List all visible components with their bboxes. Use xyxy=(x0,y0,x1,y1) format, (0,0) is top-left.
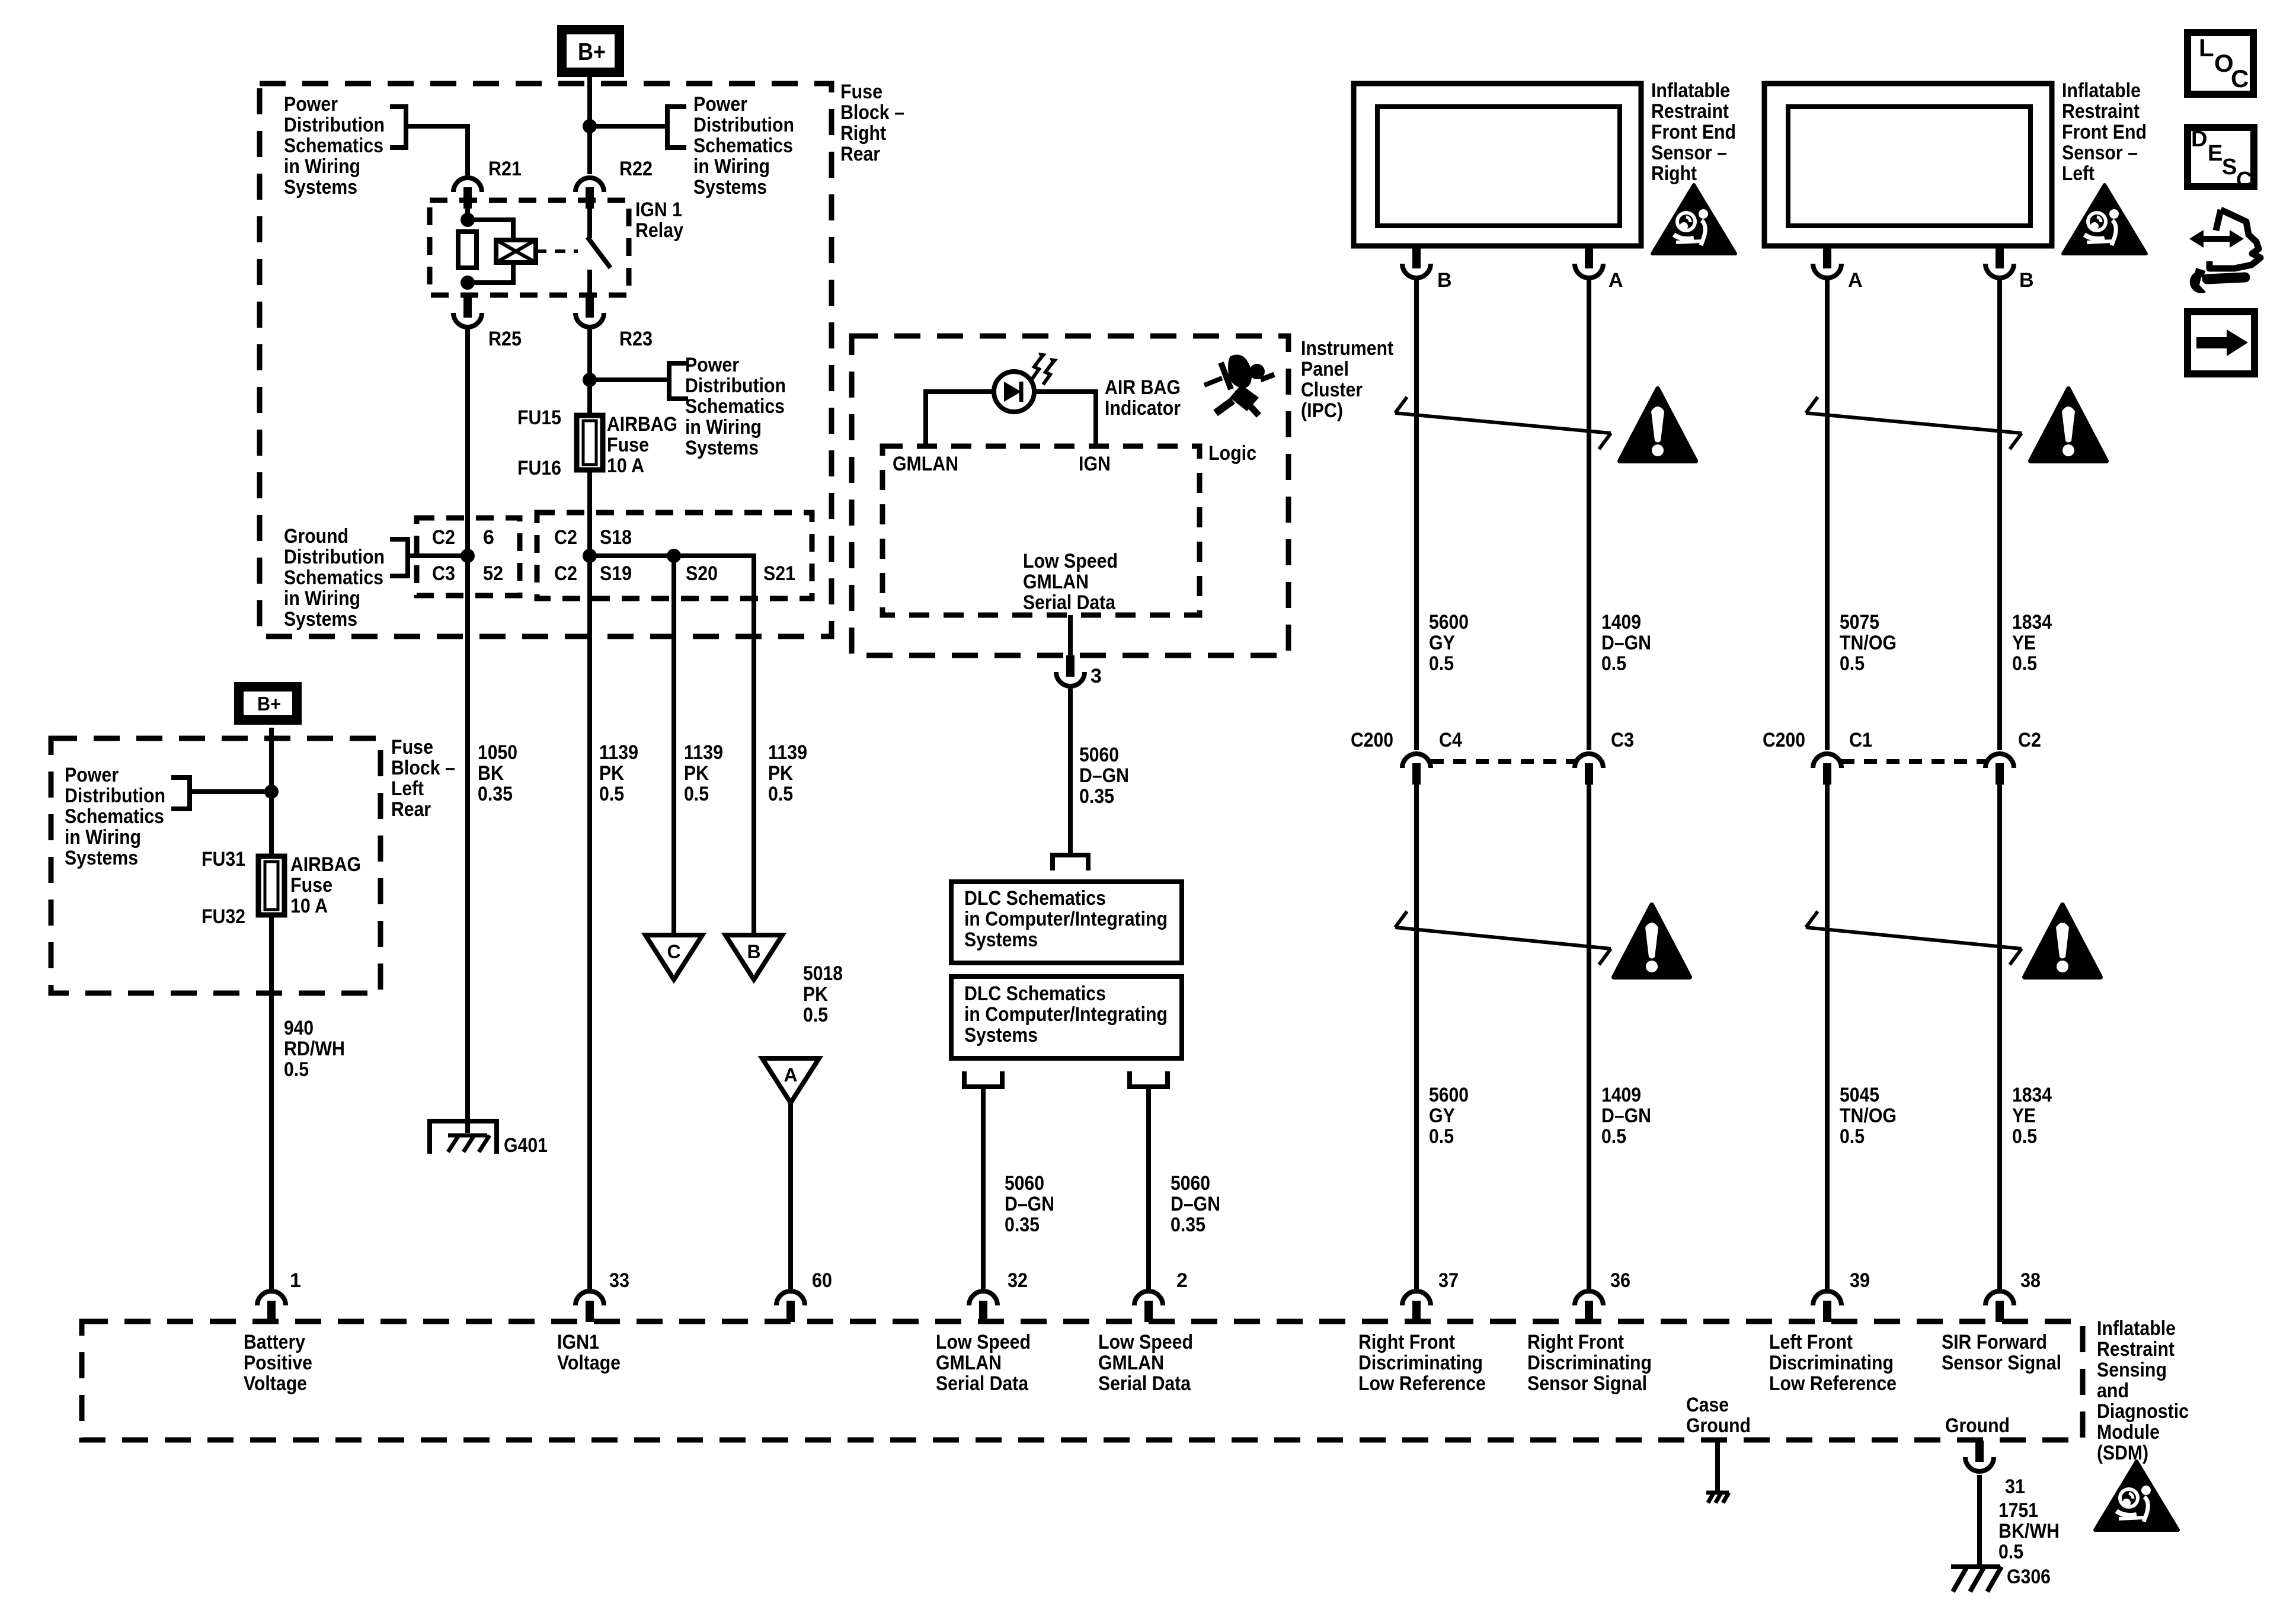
junction B+ lower branch xyxy=(264,785,279,799)
airbag caution icon sensor left xyxy=(2063,185,2146,254)
sensor right inner box xyxy=(1377,107,1620,226)
wire C2 to pin 38 xyxy=(1997,783,2002,1289)
fuse FU15/FU16 AIRBAG 10A xyxy=(577,415,603,470)
svg-text:Fuse: Fuse xyxy=(290,874,332,897)
svg-text:E: E xyxy=(2208,141,2223,166)
connector C200 C4 xyxy=(1402,754,1431,785)
svg-text:A: A xyxy=(1609,269,1623,292)
svg-text:G401: G401 xyxy=(504,1134,548,1157)
svg-text:Distribution: Distribution xyxy=(693,114,794,136)
connector pin 1 SDM xyxy=(257,1291,286,1322)
svg-text:R22: R22 xyxy=(619,158,653,180)
svg-text:in Wiring: in Wiring xyxy=(685,416,762,438)
wire IPC LED loop xyxy=(926,392,1096,446)
svg-text:TN/OG: TN/OG xyxy=(1840,632,1897,654)
svg-text:0.5: 0.5 xyxy=(599,783,624,805)
svg-text:GMLAN: GMLAN xyxy=(936,1352,1002,1374)
svg-text:YE: YE xyxy=(2012,632,2036,654)
svg-text:DLC Schematics: DLC Schematics xyxy=(964,887,1106,910)
svg-text:5600: 5600 xyxy=(1429,1084,1469,1106)
wire sensor-L pin A to C200 C1 (x=3083) xyxy=(1825,278,1830,750)
svg-text:Systems: Systems xyxy=(65,847,138,869)
wire relay switch lower to R23 xyxy=(587,270,592,295)
instrument panel cluster dashed box xyxy=(852,336,1288,655)
svg-text:in Wiring: in Wiring xyxy=(65,826,141,849)
connector pin A sensor left xyxy=(1813,247,1841,278)
svg-text:B: B xyxy=(747,941,760,962)
svg-text:Sensor –: Sensor – xyxy=(1651,142,1727,164)
LOC legend box xyxy=(2188,33,2253,94)
svg-text:1834: 1834 xyxy=(2012,611,2052,633)
svg-text:1751: 1751 xyxy=(1998,1499,2038,1522)
svg-text:TN/OG: TN/OG xyxy=(1840,1105,1897,1127)
svg-text:Relay: Relay xyxy=(635,219,683,242)
svg-text:Low Speed: Low Speed xyxy=(1023,550,1118,572)
svg-text:PK: PK xyxy=(599,762,624,785)
svg-text:Systems: Systems xyxy=(964,929,1038,951)
svg-text:Restraint: Restraint xyxy=(2097,1338,2175,1361)
svg-text:0.5: 0.5 xyxy=(2012,1125,2037,1148)
connector R23 xyxy=(575,296,604,327)
svg-text:Schematics: Schematics xyxy=(65,805,164,828)
airbag caution icon SDM xyxy=(2095,1461,2178,1530)
twisted pair right sensors row1 xyxy=(1395,413,1611,433)
wire triangle A to pin 60 (x=1334) xyxy=(788,1101,793,1289)
C200 dashed link C4-C3 xyxy=(1431,759,1575,764)
svg-text:C: C xyxy=(667,941,680,962)
airbag caution icon sensor right xyxy=(1652,185,1735,254)
svg-text:AIRBAG: AIRBAG xyxy=(607,413,677,436)
svg-text:Serial Data: Serial Data xyxy=(1098,1372,1191,1395)
wire logic box to pin 3 (x=1806) xyxy=(1068,615,1073,658)
svg-text:GMLAN: GMLAN xyxy=(1023,571,1089,593)
svg-text:Front End: Front End xyxy=(1651,121,1736,143)
connector pin 3 IPC xyxy=(1056,655,1085,686)
svg-text:Distribution: Distribution xyxy=(685,375,786,397)
wire bracket to R21 drop (left) xyxy=(406,126,468,175)
svg-text:Rear: Rear xyxy=(840,143,880,165)
twisted pair left sensors row2 xyxy=(1806,927,2022,949)
relay actuator dashes xyxy=(536,249,578,253)
connector pin 60 SDM xyxy=(776,1291,805,1322)
junction node on B+ feed xyxy=(583,119,597,133)
svg-text:C: C xyxy=(2231,65,2249,92)
svg-text:in Wiring: in Wiring xyxy=(284,155,360,178)
svg-text:Distribution: Distribution xyxy=(284,546,385,568)
junction below R23 xyxy=(583,373,597,387)
connector pin A sensor right xyxy=(1575,247,1603,278)
fuse block left rear dashed box xyxy=(51,738,380,993)
svg-text:D–GN: D–GN xyxy=(1171,1193,1220,1215)
svg-text:Front End: Front End xyxy=(2062,121,2147,143)
svg-text:Panel: Panel xyxy=(1301,358,1349,380)
svg-text:37: 37 xyxy=(1438,1269,1459,1292)
svg-text:Schematics: Schematics xyxy=(693,135,793,157)
svg-text:5600: 5600 xyxy=(1429,611,1469,633)
svg-text:Schematics: Schematics xyxy=(284,566,383,589)
svg-text:38: 38 xyxy=(2020,1269,2041,1292)
svg-text:5060: 5060 xyxy=(1079,744,1119,766)
bracket power distribution lower-left xyxy=(171,777,190,809)
svg-text:0.5: 0.5 xyxy=(1998,1541,2023,1563)
svg-text:C4: C4 xyxy=(1439,729,1462,751)
reference triangle A xyxy=(762,1058,819,1103)
svg-text:39: 39 xyxy=(1850,1269,1870,1292)
svg-text:Discriminating: Discriminating xyxy=(1527,1352,1652,1374)
connector box C2/C3 (6/52) xyxy=(417,518,520,596)
svg-text:D–GN: D–GN xyxy=(1601,632,1651,654)
DLC top bracket xyxy=(1053,855,1088,870)
svg-text:in Computer/Integrating: in Computer/Integrating xyxy=(964,908,1168,930)
svg-text:32: 32 xyxy=(1008,1269,1028,1292)
connector R21 xyxy=(453,178,482,209)
svg-text:C3: C3 xyxy=(1611,729,1634,751)
svg-text:C2: C2 xyxy=(554,562,577,585)
svg-text:Power: Power xyxy=(693,93,747,116)
svg-text:5075: 5075 xyxy=(1840,611,1879,633)
svg-text:PK: PK xyxy=(684,762,709,785)
svg-text:Power: Power xyxy=(284,93,338,116)
svg-text:0.5: 0.5 xyxy=(1840,1125,1865,1148)
svg-text:Cluster: Cluster xyxy=(1301,379,1363,401)
svg-text:Module: Module xyxy=(2097,1421,2160,1443)
svg-text:Case: Case xyxy=(1686,1394,1729,1416)
relay coil link bottom xyxy=(468,263,513,283)
svg-text:AIRBAG: AIRBAG xyxy=(290,853,361,876)
svg-text:Left: Left xyxy=(391,777,424,800)
svg-text:C200: C200 xyxy=(1351,729,1393,751)
splice box S18/S19/S20/S21 xyxy=(537,513,812,598)
wire R21 pin into relay box xyxy=(465,200,470,220)
wire branch to power distribution bracket (lower-left) xyxy=(190,789,271,794)
svg-text:R21: R21 xyxy=(488,158,522,180)
svg-text:Inflatable: Inflatable xyxy=(2097,1317,2176,1340)
svg-text:C200: C200 xyxy=(1763,729,1805,751)
wire branch to power distribution bracket (mid) xyxy=(590,377,669,382)
junction ground distribution xyxy=(461,549,475,563)
sensor left inner box xyxy=(1788,107,2030,226)
warning triangle left row1 xyxy=(2030,389,2106,461)
ground G306 symbol xyxy=(1951,1564,2000,1569)
svg-text:0.5: 0.5 xyxy=(1840,652,1865,675)
svg-text:Discriminating: Discriminating xyxy=(1769,1352,1894,1374)
svg-text:Fuse: Fuse xyxy=(840,81,882,103)
wire C1 to pin 39 xyxy=(1825,783,1830,1289)
wire DLC to pin 2 (x=1938) xyxy=(1146,1087,1151,1289)
svg-text:Serial Data: Serial Data xyxy=(1023,591,1116,614)
wire FU32 to pin 1 xyxy=(269,915,274,1289)
wire C4 to pin 37 xyxy=(1414,783,1419,1289)
air bag indicator LED xyxy=(994,372,1034,412)
C200 dashed link C1-C2 xyxy=(1841,759,1985,764)
svg-text:GY: GY xyxy=(1429,632,1455,654)
svg-text:Low Reference: Low Reference xyxy=(1358,1372,1486,1395)
svg-text:Indicator: Indicator xyxy=(1105,397,1181,420)
svg-text:Instrument: Instrument xyxy=(1301,337,1393,360)
fuse block right rear dashed box xyxy=(260,84,832,636)
svg-text:Systems: Systems xyxy=(693,176,767,199)
svg-text:60: 60 xyxy=(812,1269,832,1292)
DLC bottom bracket right xyxy=(1130,1071,1168,1087)
wire splice S18 horizontal run xyxy=(590,556,754,935)
connector R25 xyxy=(453,296,482,327)
svg-text:0.5: 0.5 xyxy=(1601,652,1626,675)
svg-text:(IPC): (IPC) xyxy=(1301,399,1343,422)
wire branch to power distribution bracket (right) xyxy=(590,124,667,129)
svg-text:5060: 5060 xyxy=(1005,1172,1044,1195)
svg-text:Inflatable: Inflatable xyxy=(2062,79,2141,102)
relay coil bottom junction xyxy=(461,276,475,290)
wire sensor-L pin B to C200 C2 (x=3374) xyxy=(1997,278,2002,750)
svg-text:0.35: 0.35 xyxy=(1171,1214,1205,1236)
connector pin 36 SDM xyxy=(1575,1291,1603,1322)
svg-text:940: 940 xyxy=(284,1017,314,1039)
svg-text:Right: Right xyxy=(840,122,886,145)
svg-text:in Computer/Integrating: in Computer/Integrating xyxy=(964,1003,1168,1026)
svg-text:AIR BAG: AIR BAG xyxy=(1105,376,1181,399)
svg-text:Discriminating: Discriminating xyxy=(1358,1352,1483,1374)
svg-text:B: B xyxy=(1437,269,1452,292)
connector pin 37 SDM xyxy=(1402,1291,1431,1322)
svg-text:Schematics: Schematics xyxy=(284,135,383,157)
svg-text:C2: C2 xyxy=(554,526,577,549)
svg-text:GMLAN: GMLAN xyxy=(1098,1352,1164,1374)
wire R25 to ground distribution junction (x=789) xyxy=(465,327,470,1133)
svg-text:Voltage: Voltage xyxy=(557,1352,621,1374)
svg-text:Systems: Systems xyxy=(685,437,759,459)
svg-text:FU31: FU31 xyxy=(202,848,245,870)
svg-text:Systems: Systems xyxy=(284,608,357,630)
svg-text:1834: 1834 xyxy=(2012,1084,2052,1106)
svg-text:0.5: 0.5 xyxy=(803,1004,828,1026)
svg-text:Power: Power xyxy=(65,764,119,786)
wire pin 3 to DLC bracket xyxy=(1068,689,1073,855)
svg-text:IGN1: IGN1 xyxy=(557,1331,599,1353)
svg-text:YE: YE xyxy=(2012,1105,2036,1127)
svg-text:Positive: Positive xyxy=(244,1352,312,1374)
svg-text:GMLAN: GMLAN xyxy=(893,453,958,475)
svg-text:RD/WH: RD/WH xyxy=(284,1038,345,1060)
svg-text:B+: B+ xyxy=(578,38,606,65)
svg-text:BK: BK xyxy=(478,762,504,785)
svg-text:C2: C2 xyxy=(432,526,455,549)
svg-text:G306: G306 xyxy=(2007,1566,2051,1588)
bracket ground distribution schematics xyxy=(390,539,408,576)
svg-text:1139: 1139 xyxy=(684,741,723,764)
svg-text:Power: Power xyxy=(685,354,739,376)
svg-text:C3: C3 xyxy=(432,562,455,585)
B+ feed (lower left) xyxy=(239,687,297,720)
wire R22 pin to relay switch xyxy=(587,209,592,238)
svg-text:1139: 1139 xyxy=(599,741,638,764)
svg-text:0.5: 0.5 xyxy=(768,783,793,805)
svg-text:PK: PK xyxy=(768,762,793,785)
svg-text:33: 33 xyxy=(609,1269,629,1292)
wire R23 to AIRBAG fuse FU15 (x=995) xyxy=(587,327,592,415)
relay coil link top xyxy=(468,220,513,240)
IPC airbag indicator icon xyxy=(1204,354,1274,415)
relay switch contact xyxy=(587,237,610,268)
svg-text:Sensing: Sensing xyxy=(2097,1359,2167,1381)
svg-text:C1: C1 xyxy=(1849,729,1872,751)
DLC bottom bracket left xyxy=(964,1071,1002,1087)
connector R22 xyxy=(575,178,604,209)
svg-text:1139: 1139 xyxy=(768,741,807,764)
twisted pair right sensors row2 xyxy=(1395,927,1611,949)
svg-text:R25: R25 xyxy=(488,328,522,350)
svg-text:1: 1 xyxy=(290,1269,301,1292)
svg-text:2: 2 xyxy=(1176,1269,1188,1292)
svg-text:R23: R23 xyxy=(619,328,653,350)
svg-text:1409: 1409 xyxy=(1601,1084,1641,1106)
svg-text:Sensor Signal: Sensor Signal xyxy=(1527,1372,1647,1395)
svg-text:0.5: 0.5 xyxy=(1429,1125,1454,1148)
svg-text:Low Reference: Low Reference xyxy=(1769,1372,1897,1395)
svg-text:5060: 5060 xyxy=(1171,1172,1210,1195)
wire SDM ground pin 31 to G306 (x=3340) xyxy=(1977,1475,1982,1567)
svg-text:Block –: Block – xyxy=(840,101,904,124)
svg-text:Right Front: Right Front xyxy=(1527,1331,1624,1353)
junction S18/S19 splice xyxy=(583,549,597,563)
bracket power distribution top-right xyxy=(667,107,686,148)
svg-text:Serial Data: Serial Data xyxy=(936,1372,1029,1395)
svg-text:Restraint: Restraint xyxy=(2062,100,2140,123)
svg-text:0.5: 0.5 xyxy=(284,1058,309,1081)
connector C200 C3 xyxy=(1575,754,1603,785)
svg-text:DLC Schematics: DLC Schematics xyxy=(964,982,1106,1005)
bracket power distribution top-left xyxy=(390,107,406,148)
svg-text:GY: GY xyxy=(1429,1105,1455,1127)
svg-text:D: D xyxy=(2191,127,2207,152)
ground G401 symbol xyxy=(430,1121,497,1154)
svg-text:3: 3 xyxy=(1091,665,1102,687)
case ground symbol xyxy=(1706,1493,1729,1503)
svg-text:IGN: IGN xyxy=(1079,453,1111,475)
svg-text:Ground: Ground xyxy=(1686,1414,1751,1437)
relay coil top junction xyxy=(461,213,475,227)
svg-text:B+: B+ xyxy=(257,693,281,715)
svg-text:1409: 1409 xyxy=(1601,611,1641,633)
svg-text:S: S xyxy=(2222,155,2237,180)
wire B+ lower to pin 1 (x=458) xyxy=(269,728,274,856)
warning triangle right row2 xyxy=(1614,905,1690,977)
svg-text:A: A xyxy=(1848,269,1863,292)
svg-text:0.35: 0.35 xyxy=(1079,785,1114,808)
svg-text:FU16: FU16 xyxy=(517,457,561,479)
svg-text:Fuse: Fuse xyxy=(391,736,433,758)
svg-text:Diagnostic: Diagnostic xyxy=(2097,1400,2189,1423)
svg-text:31: 31 xyxy=(2005,1475,2025,1498)
wire sensor-R pin B to C200 C4 (x=2390) xyxy=(1414,278,1419,750)
sensor left outer box xyxy=(1764,84,2052,246)
svg-text:36: 36 xyxy=(1610,1269,1630,1292)
relay coil resistor xyxy=(458,232,477,268)
svg-text:D–GN: D–GN xyxy=(1079,764,1129,787)
svg-text:Logic: Logic xyxy=(1208,442,1256,465)
junction S20 splice xyxy=(667,549,681,563)
connector pin 39 SDM xyxy=(1813,1291,1841,1322)
svg-text:C2: C2 xyxy=(2018,729,2041,751)
svg-text:Distribution: Distribution xyxy=(65,785,165,807)
svg-text:in Wiring: in Wiring xyxy=(284,587,360,610)
DLC schematics box 1 xyxy=(951,882,1182,963)
svg-text:C: C xyxy=(2236,168,2252,193)
reference triangle C xyxy=(645,935,702,980)
svg-text:FU32: FU32 xyxy=(202,905,245,928)
IGN 1 relay dashed box xyxy=(430,200,629,295)
svg-text:IGN 1: IGN 1 xyxy=(635,199,682,221)
svg-text:in Wiring: in Wiring xyxy=(693,155,770,178)
svg-text:L: L xyxy=(2199,34,2214,62)
twisted pair left sensors row1 xyxy=(1806,413,2022,433)
svg-text:Voltage: Voltage xyxy=(244,1372,307,1395)
svg-text:Sensor –: Sensor – xyxy=(2062,142,2138,164)
svg-text:S21: S21 xyxy=(763,562,795,585)
svg-text:Low Speed: Low Speed xyxy=(936,1331,1031,1353)
svg-text:10 A: 10 A xyxy=(290,895,328,917)
svg-text:0.5: 0.5 xyxy=(1429,652,1454,675)
next-page arrow box xyxy=(2188,312,2255,374)
svg-text:BK/WH: BK/WH xyxy=(1998,1520,2060,1542)
svg-text:D–GN: D–GN xyxy=(1005,1193,1054,1215)
connector C200 C2 xyxy=(1985,754,2014,785)
SDM dashed box xyxy=(82,1321,2083,1440)
warning triangle right row1 xyxy=(1620,389,1696,461)
svg-text:A: A xyxy=(784,1064,797,1086)
svg-text:0.5: 0.5 xyxy=(684,783,709,805)
B+ feed (top) xyxy=(562,30,619,72)
svg-text:SIR Forward: SIR Forward xyxy=(1942,1331,2047,1353)
svg-text:Inflatable: Inflatable xyxy=(1651,79,1730,102)
svg-text:0.35: 0.35 xyxy=(478,783,513,805)
svg-text:Systems: Systems xyxy=(284,176,357,199)
svg-text:Schematics: Schematics xyxy=(685,395,785,418)
svg-text:Sensor Signal: Sensor Signal xyxy=(1942,1352,2061,1374)
svg-text:0.5: 0.5 xyxy=(2012,652,2037,675)
connector pin B sensor left xyxy=(1985,247,2014,278)
svg-text:10 A: 10 A xyxy=(607,454,644,477)
svg-text:Block –: Block – xyxy=(391,757,455,779)
svg-text:S19: S19 xyxy=(600,562,632,585)
connector pin 31 SDM ground xyxy=(1965,1441,1994,1471)
bracket power distribution mid-right xyxy=(669,363,688,399)
svg-text:FU15: FU15 xyxy=(517,406,561,429)
svg-text:(SDM): (SDM) xyxy=(2097,1442,2148,1464)
svg-text:and: and xyxy=(2097,1379,2129,1402)
wire C3 to pin 36 xyxy=(1587,783,1591,1289)
svg-text:Ground: Ground xyxy=(1945,1414,2010,1437)
svg-text:Ground: Ground xyxy=(284,525,348,548)
svg-text:D–GN: D–GN xyxy=(1601,1105,1651,1127)
reference triangle B xyxy=(725,935,782,980)
connector pin 32 SDM xyxy=(969,1291,997,1322)
sensor right outer box xyxy=(1354,84,1641,246)
svg-text:Left: Left xyxy=(2062,162,2094,185)
svg-text:Rear: Rear xyxy=(391,798,431,821)
adjust/repair icon xyxy=(2209,210,2260,268)
svg-text:1050: 1050 xyxy=(478,741,517,764)
svg-text:Systems: Systems xyxy=(964,1024,1038,1046)
warning triangle left row2 xyxy=(2025,905,2100,977)
svg-text:5018: 5018 xyxy=(803,962,843,985)
wire ground distribution bracket xyxy=(408,553,468,558)
svg-text:5045: 5045 xyxy=(1840,1084,1879,1106)
svg-text:52: 52 xyxy=(483,562,503,585)
connector C200 C1 xyxy=(1813,754,1841,785)
wire B+ to R22 (x=995) xyxy=(587,73,592,174)
svg-text:PK: PK xyxy=(803,983,828,1006)
DLC schematics box 2 xyxy=(951,977,1182,1058)
